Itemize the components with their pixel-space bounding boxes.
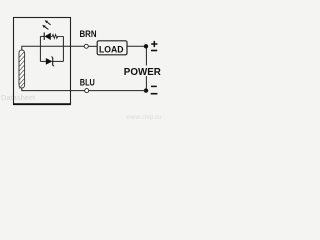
BRN terminal	[84, 44, 88, 48]
label POWER	[124, 66, 163, 78]
zener diode D2	[46, 57, 54, 67]
BLU terminal	[85, 89, 89, 93]
load box	[97, 41, 127, 55]
junction minus node	[144, 88, 148, 92]
wire zener branch left	[40, 60, 45, 62]
plus terminal symbol	[151, 41, 157, 47]
svg-text:LOAD: LOAD	[99, 44, 124, 55]
plus terminal bar	[151, 50, 157, 52]
junction plus node	[144, 44, 148, 48]
svg-text:Datasheet: Datasheet	[1, 93, 36, 102]
node right rail	[62, 36, 64, 61]
power supply vertical wire	[145, 46, 147, 90]
LED D1	[42, 20, 51, 40]
resistor R1	[51, 35, 64, 39]
wire coil top to BRN line	[22, 46, 85, 50]
wire BRN terminal to LOAD	[88, 45, 97, 47]
svg-text:BRN: BRN	[80, 29, 97, 40]
svg-text:POWER: POWER	[124, 66, 161, 78]
wire LOAD to plus node	[127, 45, 146, 47]
sensor enclosure box	[14, 18, 71, 105]
wire LED branch left	[40, 35, 44, 37]
minus terminal bar	[151, 93, 158, 95]
wire coil bottom to BLU terminal	[22, 88, 85, 91]
coil L1 (hatched)	[19, 50, 25, 89]
svg-text:BLU: BLU	[80, 77, 95, 88]
minus terminal symbol	[151, 85, 157, 87]
node left rail	[39, 36, 41, 61]
enclosure bottom edge (thick)	[13, 103, 71, 105]
svg-text:www.chip.ru: www.chip.ru	[125, 114, 161, 121]
wire zener branch right	[53, 60, 64, 62]
wire BLU terminal to minus node	[89, 90, 146, 92]
